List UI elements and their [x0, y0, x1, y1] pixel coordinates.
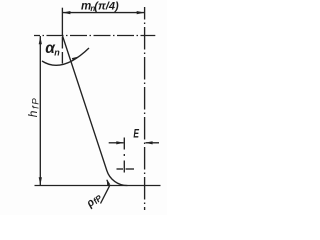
svg-text:(π/4): (π/4): [94, 0, 119, 12]
svg-text:ρfP: ρfP: [83, 191, 104, 211]
svg-text:n: n: [54, 47, 60, 57]
svg-text:E: E: [133, 127, 139, 141]
svg-text:hfP: hfP: [26, 97, 42, 118]
